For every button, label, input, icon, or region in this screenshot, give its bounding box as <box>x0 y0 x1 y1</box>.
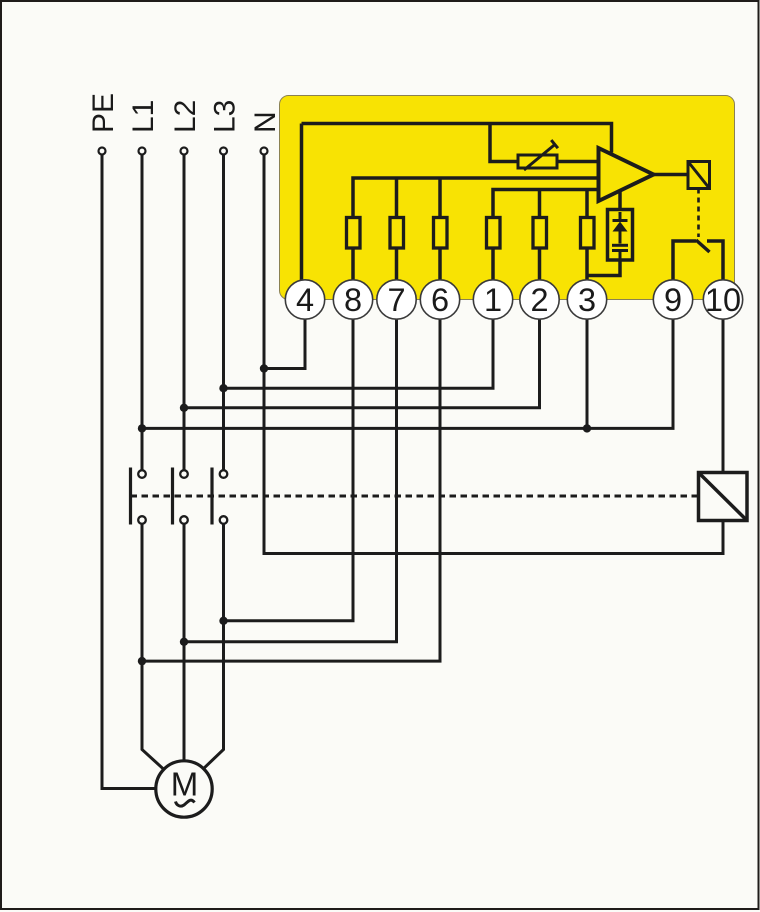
wire diode box bottom lead to terminal 3 <box>587 260 620 276</box>
wire terminal 6 to L1 <box>142 320 440 662</box>
wire N vertical and to contactor coil <box>264 156 723 554</box>
svg-text:PE: PE <box>87 93 120 133</box>
diode network D1 <box>587 191 633 276</box>
resistor R6 <box>434 218 448 249</box>
supply terminal N <box>261 148 268 155</box>
contactor contact K2 (L2) <box>180 470 188 524</box>
svg-text:3: 3 <box>578 282 596 318</box>
svg-text:N: N <box>249 111 282 133</box>
wire R8 lead <box>351 248 355 281</box>
terminal 10 <box>703 280 742 319</box>
wire measuring bus 2 <box>493 190 599 218</box>
contactor dashed mechanical link <box>131 495 699 498</box>
resistor R8 <box>347 218 361 249</box>
junction node L3-8 <box>219 617 227 625</box>
wire measuring bus 1 <box>353 178 599 218</box>
svg-text:8: 8 <box>344 282 362 318</box>
supply terminal L2 <box>181 148 188 155</box>
wire L1 upper <box>141 156 144 470</box>
yellow device body <box>280 96 735 300</box>
wire R1 lead <box>491 248 495 281</box>
junction node L1-6 <box>138 657 146 665</box>
svg-text:M: M <box>171 766 199 803</box>
terminal 9 <box>653 280 692 319</box>
wire terminal 9 to L1 <box>142 320 673 429</box>
wire L3 upper <box>222 156 225 470</box>
contactor contact K1 (L1) <box>138 470 146 524</box>
relay coil K1 (inside device) <box>688 162 710 189</box>
junction node L2-2 <box>180 404 188 412</box>
wire L2 lower to motor <box>183 524 186 761</box>
svg-text:4: 4 <box>296 282 314 318</box>
wire terminal 8 to L3 <box>224 320 354 621</box>
op-amp comparator U1 <box>599 148 654 201</box>
svg-text:1: 1 <box>484 282 502 318</box>
relay output contact 9-10 <box>673 240 723 281</box>
wire R6 lead <box>438 248 442 281</box>
wire diode box top lead <box>618 191 622 210</box>
wire terminal 2 to L2 <box>184 320 540 408</box>
wire L3 lower to motor <box>203 524 223 768</box>
internal circuit of relay <box>302 124 612 284</box>
terminal 3 <box>567 280 606 319</box>
motor M1 <box>156 761 212 817</box>
junction node L3-1 <box>219 384 227 392</box>
potentiometer P1 <box>518 140 558 170</box>
wire riser R6 <box>438 178 442 218</box>
wire PE vertical <box>102 156 155 789</box>
wire L2 upper <box>183 156 186 470</box>
svg-text:10: 10 <box>705 282 741 318</box>
terminal 4 <box>285 280 324 319</box>
wire R3 lead <box>585 248 589 281</box>
terminal 8 <box>333 280 372 319</box>
terminal 6 <box>420 280 459 319</box>
wire internal top rail <box>302 124 612 153</box>
wire terminal 10 to contactor coil <box>722 320 725 473</box>
svg-text:9: 9 <box>664 282 682 318</box>
terminal 2 <box>520 280 559 319</box>
wire riser R7 <box>395 178 399 218</box>
wire riser R3 <box>585 190 589 218</box>
supply terminal L1 <box>139 148 146 155</box>
resistor R2 <box>533 218 547 249</box>
svg-text:2: 2 <box>530 282 548 318</box>
wire R7 lead <box>395 248 399 281</box>
wire terminal 7 to L2 <box>184 320 397 642</box>
resistor R1 <box>487 218 501 249</box>
svg-text:L2: L2 <box>169 100 202 133</box>
contactor coil K <box>699 473 748 521</box>
wire R2 lead <box>538 248 542 281</box>
svg-text:L3: L3 <box>209 100 242 133</box>
wire terminal 3 junction <box>586 320 589 429</box>
supply terminal L3 <box>220 148 227 155</box>
junction node 3-9 <box>583 424 591 432</box>
contactor contact K3 (L3) <box>220 470 228 524</box>
svg-text:7: 7 <box>387 282 405 318</box>
resistor R3 <box>581 218 595 249</box>
resistor R7 <box>390 218 404 249</box>
wire terminal 1 to L3 <box>224 320 494 389</box>
wire potentiometer feed <box>490 124 518 162</box>
svg-text:6: 6 <box>431 282 449 318</box>
terminal 7 <box>377 280 416 319</box>
wire op-amp output <box>654 173 689 177</box>
svg-text:L1: L1 <box>127 100 160 133</box>
junction node L2-7 <box>180 638 188 646</box>
terminal 1 <box>473 280 512 319</box>
junction node N-4 <box>260 364 268 372</box>
dashed link coil to contact <box>697 189 700 238</box>
junction node L1-9 <box>138 424 146 432</box>
wire riser R2 <box>538 190 542 218</box>
wire L1 lower to motor <box>142 524 163 768</box>
wire terminal 4 to N <box>264 320 305 369</box>
wire terminal 4 riser <box>300 124 304 284</box>
wire potentiometer output <box>557 160 599 164</box>
supply terminal PE <box>99 148 106 155</box>
